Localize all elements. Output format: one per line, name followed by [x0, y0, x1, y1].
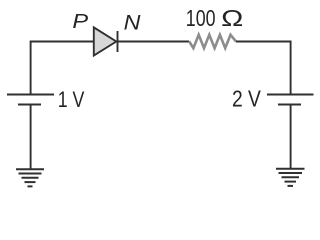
battery V2 negative plate (short) — [278, 104, 301, 106]
svg-text:1 V: 1 V — [58, 87, 85, 112]
battery V2 positive plate (long) — [267, 94, 314, 96]
battery V1 negative plate (short) — [18, 104, 41, 106]
wire: left branch, top-left corner to diode anode — [31, 42, 93, 95]
ground GND2 (right) — [276, 169, 305, 186]
wire: diode cathode to resistor left lead — [118, 41, 190, 43]
diode triangle (anode, P side) — [94, 27, 117, 55]
ground GND1 (left) — [16, 169, 44, 186]
svg-text:P: P — [72, 11, 88, 33]
wire: battery V2 negative plate to ground — [290, 105, 292, 169]
svg-text:Ω: Ω — [221, 5, 243, 31]
svg-text:N: N — [124, 11, 141, 35]
svg-text:2 V: 2 V — [232, 86, 261, 112]
resistor zigzag body — [189, 35, 236, 48]
wire: battery V1 negative plate to ground — [30, 105, 32, 170]
svg-text:100: 100 — [186, 5, 216, 31]
wire: resistor right lead to top-right corner down to battery V2 — [236, 42, 291, 95]
diode cathode bar (N side) — [117, 31, 119, 52]
battery V1 positive plate (long) — [7, 94, 54, 96]
